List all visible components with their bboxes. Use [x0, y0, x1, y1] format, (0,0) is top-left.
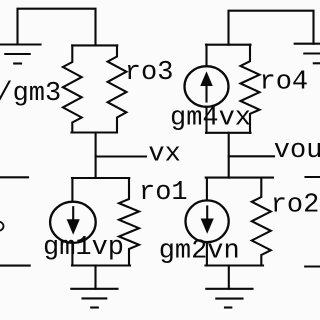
ground (top-right, cut at edge) — [295, 44, 320, 64]
wire: vx tap — [96, 155, 146, 157]
ground (bottom-left) — [71, 289, 117, 308]
wire: vout port upper stub (cut at right edge) — [306, 176, 320, 178]
node: bottom bar of gm2vn || ro2 block — [206, 264, 264, 266]
wire: vout vertical (right mid column) — [228, 133, 230, 178]
node: bottom bar of gm1vp || ro1 block — [72, 264, 130, 266]
svg-text:vx: vx — [148, 140, 180, 170]
current source gm4vx (arrow up) — [185, 45, 229, 133]
ground (top-left) — [0, 45, 41, 64]
node: top bar of gm1vp || ro1 block — [72, 177, 129, 179]
svg-text:gm2vn: gm2vn — [159, 237, 240, 267]
wire: vp port lower stub (cut at left edge) — [0, 265, 30, 267]
svg-text:gm4vx: gm4vx — [170, 104, 251, 134]
node: bottom bar of gm4vx || ro4 block — [206, 132, 251, 134]
resistor ro3 — [108, 45, 127, 132]
resistor ro4 — [241, 45, 260, 133]
svg-text:1/gm3: 1/gm3 — [0, 79, 61, 109]
wire: right bottom to ground — [228, 266, 230, 289]
current source gm1vp (arrow down) — [50, 178, 96, 266]
svg-text:ro1: ro1 — [139, 178, 188, 208]
wire: left bottom to ground — [94, 266, 96, 289]
wire: vout tap — [229, 155, 274, 157]
svg-text:vout: vout — [274, 136, 320, 166]
svg-text:ro2: ro2 — [271, 191, 320, 221]
wire top-right: rail from gm4||ro4 block to ground — [229, 11, 314, 45]
svg-text:ro4: ro4 — [260, 67, 309, 97]
node: top bar of gm4vx || ro4 block — [206, 44, 251, 46]
current source gm2vn (arrow down) — [186, 178, 229, 266]
wire top-left: supply rail from ground to 1/gm3||ro3 block — [18, 9, 96, 46]
node: top bar of gm2vn || ro2 block (extends right toward vout port) — [206, 177, 273, 179]
resistor 1/gm3 (label cut at left edge) — [63, 45, 82, 132]
vp source circle (cut at left edge) — [0, 222, 4, 231]
resistor ro2 — [252, 178, 271, 266]
ground (bottom-right) — [206, 289, 252, 308]
node: bottom bar of 1/gm3 || ro3 block — [72, 131, 117, 133]
node: top bar of 1/gm3 || ro3 block — [72, 44, 117, 46]
resistor ro1 — [119, 178, 139, 266]
svg-text:gm1vp: gm1vp — [43, 233, 124, 263]
wire: vp port upper stub (cut at left edge) — [0, 176, 28, 178]
wire: vout port lower stub (cut at right edge) — [305, 265, 320, 267]
svg-text:ro3: ro3 — [125, 58, 174, 88]
wire: vx vertical (left mid column) — [95, 133, 97, 179]
